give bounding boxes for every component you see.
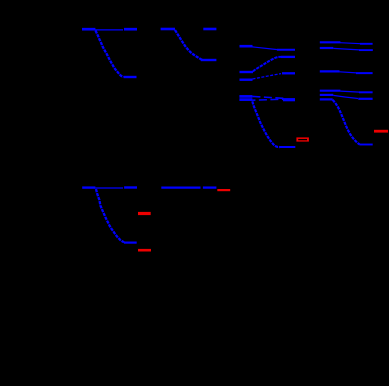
level G2 upper-right dash: [203, 28, 216, 31]
level G6 long flat line: [161, 186, 200, 188]
level G6 right dash: [203, 186, 217, 188]
curve G3-B rising branch: [253, 57, 281, 72]
level G4-L2 left dash: [320, 94, 334, 96]
level G3 cluster right dash: [283, 98, 295, 101]
level G4-P2 left dash: [320, 47, 334, 49]
wire G3-A thin declining connector: [253, 47, 278, 50]
level G4-P1 right dash: [360, 43, 373, 45]
node G2: top-middle S-curve group: [161, 29, 217, 60]
node G3: mid-right multi-level group: [239, 46, 295, 147]
curve G5 diving adiabatic curve: [96, 189, 124, 242]
level G4 bottom flat: [359, 144, 372, 146]
level G5 lower dash: [124, 242, 137, 244]
curve G1 diving adiabatic curve: [96, 31, 124, 78]
level G3-A left dash: [240, 45, 253, 48]
marker R6: red dash of group G6: [217, 189, 230, 191]
level G4-L1 right dash: [359, 91, 373, 93]
node G4: far-right multi-level group: [320, 42, 373, 144]
level G3 cluster upper-left dash: [239, 95, 252, 98]
wire G3 cluster dashed line lower: [252, 99, 284, 100]
wire G3-C thin rising connector: [253, 74, 282, 79]
level G3-C right dash: [282, 72, 295, 74]
level G4-M left dash: [320, 70, 340, 72]
wire G4-M thin connector: [340, 72, 357, 73]
level G4-L2 right dash: [358, 98, 372, 100]
level G3 cluster lower-left dash: [239, 98, 252, 101]
level G4-M right dash: [356, 72, 373, 74]
level G4-P1 left dash: [320, 41, 341, 43]
curve G2 sigmoid transition: [175, 30, 203, 60]
level G4-L1 left dash: [320, 90, 341, 92]
level G3-C left dash: [240, 78, 253, 80]
marker R4: red dash of group G4: [374, 130, 388, 133]
level G4-P2 right dash: [359, 49, 373, 51]
level G3-B left dash: [240, 71, 254, 73]
node G6: bottom-middle flat level group: [161, 186, 216, 188]
level G5 upper-right dash: [124, 186, 137, 188]
wire G3 cluster dashed line upper: [252, 96, 284, 98]
marker R3: red double dash of group G3: [296, 137, 309, 141]
curve G3 diving branch: [252, 101, 279, 147]
node G5: bottom-left avoided-crossing group: [82, 188, 137, 243]
level G5 upper-left dash: [82, 186, 95, 188]
curve G4 diving branch: [333, 100, 360, 145]
level G1 upper-right dash: [124, 28, 137, 31]
marker R5a: upper red dash of group G5: [138, 212, 151, 215]
wire G4-L2 thin declining connector: [333, 95, 358, 98]
level G1 lower dash: [124, 76, 137, 78]
wire G4-P2 thin connector: [333, 48, 359, 50]
marker R5b: lower red dash of group G5: [138, 249, 151, 252]
node G1: top-left avoided-crossing group: [82, 29, 137, 77]
level G1 upper-left dash: [82, 28, 95, 31]
level G4-L3 left dash: [320, 98, 333, 100]
wire G4-L1 thin connector: [340, 91, 359, 92]
wire G4-P1 thin connector: [340, 43, 361, 44]
level G3-A right dash: [277, 49, 295, 51]
level G2 upper-left dash: [161, 28, 175, 31]
wire G5 thin upper level connector: [95, 187, 123, 189]
level G3-B right dash: [281, 56, 295, 58]
wire G1 thin upper level connector: [95, 29, 123, 31]
level G2 lower flat: [201, 59, 217, 61]
level G3 bottom flat: [280, 146, 296, 148]
